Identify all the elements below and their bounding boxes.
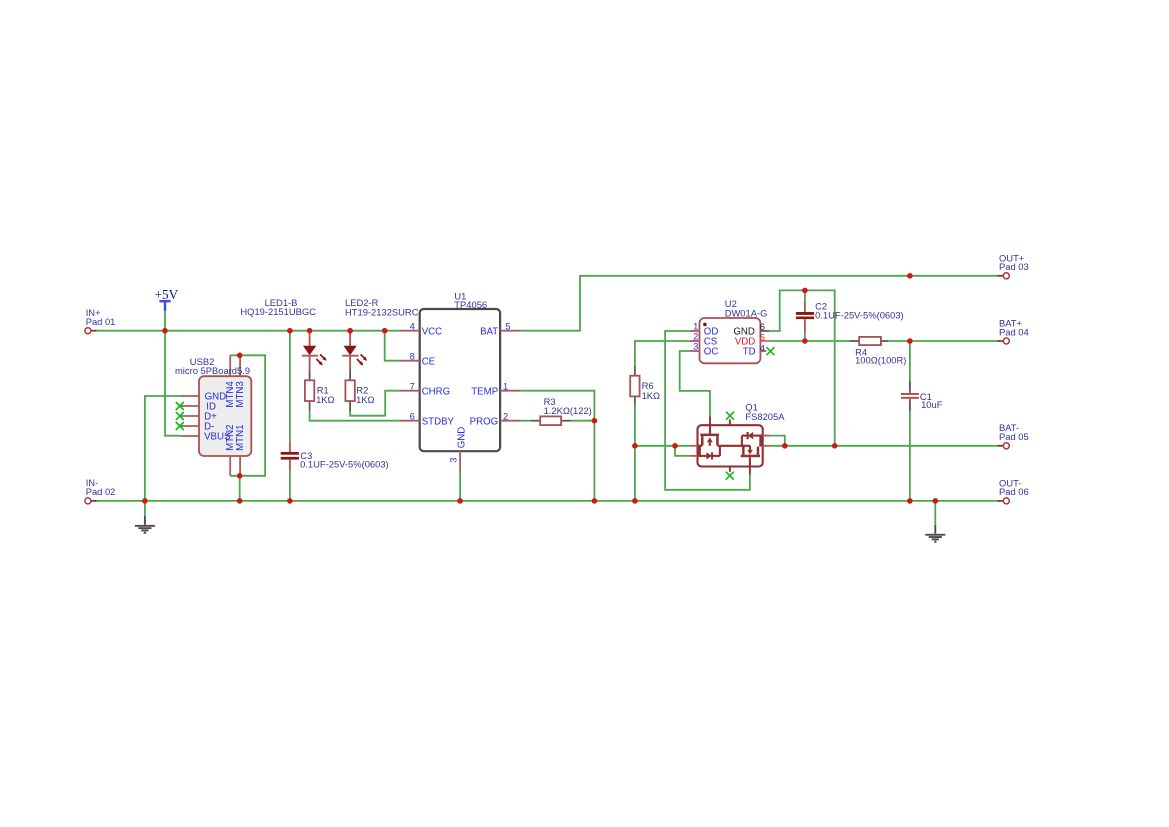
- wire U2 OD loop to Q1 gate2: [665, 331, 750, 490]
- svg-text:0.1UF-25V-5%(0603): 0.1UF-25V-5%(0603): [815, 309, 904, 320]
- wire PROG to R3: [520, 420, 530, 422]
- wire C1 bottom to rail: [909, 411, 911, 501]
- capacitor C3: [289, 442, 291, 452]
- svg-text:VCC: VCC: [422, 327, 442, 338]
- LED LED1-B: [309, 332, 311, 346]
- U2 pin stubs: [690, 330, 700, 332]
- svg-text:1KΩ: 1KΩ: [316, 394, 334, 405]
- no-connect X on TD: [766, 347, 774, 355]
- resistor R2: [345, 380, 354, 401]
- svg-text:TP4056: TP4056: [454, 299, 487, 310]
- no-connect X on ID: [176, 402, 184, 410]
- U1 pin stubs: [400, 330, 420, 332]
- no-connect X on Q1 bottom: [726, 472, 734, 480]
- wire R6 bottom to rail: [634, 405, 636, 501]
- capacitor C1: [909, 381, 911, 391]
- svg-text:PROG: PROG: [470, 417, 499, 428]
- ground left: [135, 525, 155, 527]
- svg-text:4: 4: [760, 343, 765, 354]
- pad Pad 05: [1003, 443, 1009, 449]
- pad Pad 01: [85, 328, 91, 334]
- resistor R3 leads: [531, 420, 540, 422]
- svg-text:GND: GND: [456, 427, 467, 449]
- wire right ground drop: [934, 501, 936, 525]
- wire Q1 source loop left: [675, 446, 690, 456]
- svg-text:5: 5: [760, 331, 765, 342]
- svg-text:6: 6: [410, 410, 415, 421]
- svg-text:FS8205A: FS8205A: [745, 411, 785, 422]
- svg-text:MTN3: MTN3: [235, 381, 246, 407]
- svg-text:5: 5: [505, 320, 510, 331]
- connector USB2 MTN pins: [229, 355, 231, 376]
- svg-text:DW01A-G: DW01A-G: [725, 307, 768, 318]
- resistor R2 upper lead: [349, 370, 351, 380]
- wire +5V vertical to VBUS: [165, 311, 181, 436]
- Q1 internal MOSFETs: [709, 425, 711, 434]
- ground right: [925, 534, 945, 536]
- svg-text:OC: OC: [704, 346, 719, 357]
- svg-text:TD: TD: [743, 346, 756, 357]
- wire CHRG to R2: [350, 391, 400, 416]
- svg-text:+5V: +5V: [155, 287, 179, 302]
- capacitor C2: [804, 290, 806, 301]
- power flag +5V: [159, 300, 170, 302]
- wire C1 top: [909, 341, 911, 381]
- wire STDBY to R1: [310, 410, 400, 420]
- resistor R3: [540, 416, 561, 425]
- svg-text:0.1UF-25V-5%(0603): 0.1UF-25V-5%(0603): [300, 458, 389, 469]
- svg-text:2: 2: [503, 410, 508, 421]
- wire USB mounting to rail: [239, 476, 241, 501]
- pad Pad 03: [1003, 273, 1009, 279]
- wire U2 CS to R6: [635, 341, 690, 366]
- svg-text:BAT: BAT: [480, 327, 498, 338]
- svg-text:3: 3: [448, 458, 459, 463]
- wire Q1 drain loop right: [770, 436, 785, 446]
- svg-text:4: 4: [410, 320, 415, 331]
- no-connect X on Q1 top: [726, 412, 734, 420]
- wire R2 lower lead: [349, 401, 351, 411]
- wire C3 branch lower: [289, 470, 291, 501]
- resistor R6 leads: [634, 366, 636, 376]
- svg-text:CE: CE: [422, 357, 436, 368]
- svg-text:HQ19-2151UBGC: HQ19-2151UBGC: [240, 306, 316, 317]
- resistor R4: [859, 337, 881, 345]
- svg-text:8: 8: [410, 350, 415, 361]
- ground left stem: [144, 516, 146, 525]
- svg-text:CHRG: CHRG: [422, 387, 451, 398]
- wire BAT- line left: [635, 445, 690, 447]
- wire USB GND to left ground drop: [145, 396, 181, 516]
- ground right stem: [934, 525, 936, 534]
- svg-text:1KΩ: 1KΩ: [642, 390, 660, 401]
- svg-text:10uF: 10uF: [921, 399, 943, 410]
- svg-text:STDBY: STDBY: [422, 417, 455, 428]
- op-amp U1 body: [420, 309, 500, 451]
- svg-text:Pad 05: Pad 05: [999, 431, 1029, 442]
- svg-text:1.2KΩ(122): 1.2KΩ(122): [544, 405, 592, 416]
- svg-text:100Ω(100R): 100Ω(100R): [855, 354, 906, 365]
- wire R4 to BAT+ pad: [889, 340, 1000, 342]
- no-connect X on D+: [176, 412, 184, 420]
- resistor R1: [305, 380, 314, 401]
- wire BAT to OUT+: [520, 276, 999, 331]
- svg-text:3: 3: [693, 340, 698, 351]
- resistor R4 leads: [849, 340, 859, 342]
- svg-text:Pad 04: Pad 04: [999, 326, 1029, 337]
- junction dots: [162, 328, 168, 334]
- svg-text:7: 7: [410, 380, 415, 391]
- transistor Q1 body: [698, 425, 763, 466]
- svg-text:1KΩ: 1KΩ: [356, 394, 374, 405]
- wire VDD to C2/R4: [770, 340, 849, 342]
- pad Pad 06: [1003, 498, 1009, 504]
- svg-text:HT19-2132SURC: HT19-2132SURC: [345, 306, 419, 317]
- resistor R1 upper lead: [309, 370, 311, 380]
- wire bottom IN-/OUT- rail: [95, 500, 1000, 502]
- svg-text:Pad 02: Pad 02: [86, 486, 116, 497]
- svg-text:Pad 03: Pad 03: [999, 261, 1029, 272]
- pad Pad 04: [1003, 338, 1009, 344]
- wire C3 branch upper: [289, 331, 291, 442]
- pad Pad 02: [85, 498, 91, 504]
- wire IN+ rail (Pad01 to U1 VCC): [95, 330, 400, 332]
- Q1 pin stubs: [709, 416, 711, 425]
- wire R1 lower lead: [309, 401, 311, 410]
- svg-text:6: 6: [760, 321, 765, 332]
- svg-text:Pad 01: Pad 01: [86, 316, 116, 327]
- wire TEMP down to rail: [520, 391, 594, 501]
- svg-text:Pad 06: Pad 06: [999, 486, 1029, 497]
- svg-text:micro 5PBoard5.9: micro 5PBoard5.9: [175, 365, 250, 376]
- wire U2 GND over to C2/B-: [769, 290, 835, 445]
- wire CE: [385, 331, 400, 361]
- IC U2 body: [700, 318, 761, 363]
- wire R3 to TEMP net: [571, 420, 594, 422]
- connector USB2 pins GND/ID/D+/D-/VBUS: [181, 395, 199, 397]
- wire U1 GND to rail: [459, 472, 461, 501]
- wire BAT- line right to Pad05: [770, 445, 1000, 447]
- U2 pin1 dot: [703, 323, 707, 327]
- connector USB2 body: [199, 376, 251, 456]
- wire USB mounting loop: [230, 355, 265, 476]
- LED LED2-R: [349, 332, 351, 346]
- svg-text:MTN1: MTN1: [235, 425, 246, 451]
- wire U2 OC loop to Q1 gate1: [680, 351, 710, 416]
- resistor R6: [630, 376, 639, 397]
- svg-text:TEMP: TEMP: [471, 387, 498, 398]
- svg-text:1: 1: [503, 380, 508, 391]
- no-connect X on D-: [176, 422, 184, 430]
